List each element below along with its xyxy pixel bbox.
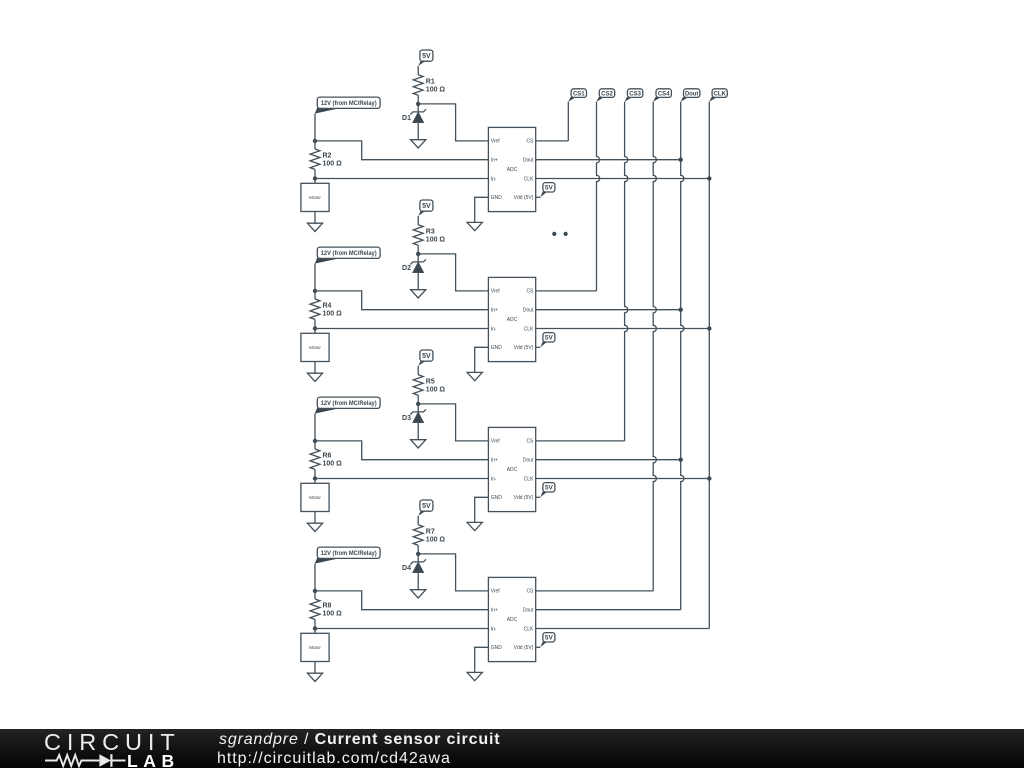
svg-text:Vdd (5V): Vdd (5V) <box>514 645 534 651</box>
wire R7 to node <box>417 545 419 554</box>
power flag 5V (R1 top) <box>418 50 433 66</box>
svg-text:D4: D4 <box>402 565 411 572</box>
svg-text:Motor: Motor <box>309 495 321 500</box>
ground (Motor) <box>307 523 322 531</box>
wire Dout (U4) to Dout bus <box>536 609 681 611</box>
wire CS (U2) to CS2 bus <box>536 290 597 292</box>
wire node to D2 <box>417 254 419 262</box>
wire Vdd stub (U4) <box>536 646 541 648</box>
wire CS (U4) to CS4 bus <box>536 590 654 592</box>
svg-text:Vref: Vref <box>491 139 501 145</box>
svg-text:12V (from MC/Relay): 12V (from MC/Relay) <box>321 250 377 257</box>
svg-text:CLK: CLK <box>524 476 534 482</box>
svg-text:GND: GND <box>491 195 503 201</box>
wire R5 to node <box>417 395 419 404</box>
diode D1 (zener) <box>402 109 426 122</box>
node R8/Motor/In- junction <box>313 626 317 630</box>
motor (block 2) <box>301 333 329 361</box>
ground (U3) <box>467 522 482 530</box>
junction Dout bus / U2 <box>679 308 683 312</box>
svg-text:Motor: Motor <box>309 645 321 650</box>
wire CS2 bus <box>597 102 600 291</box>
power flag 5V (U4 Vdd) <box>540 633 555 648</box>
net flag CS2 <box>596 89 614 102</box>
svg-text:In+: In+ <box>491 458 498 464</box>
svg-text:ADC: ADC <box>507 167 518 173</box>
svg-text:5V: 5V <box>422 503 431 510</box>
junction Dout bus / U1 <box>679 158 683 162</box>
wire D2 to ground <box>417 273 419 290</box>
ground (U4) <box>467 672 482 680</box>
wire node to Motor <box>314 629 316 634</box>
svg-text:D1: D1 <box>402 115 411 122</box>
wire CS1 bus <box>567 102 569 141</box>
junction CLK bus / U2 <box>707 326 711 330</box>
svg-text:CS1: CS1 <box>573 91 585 98</box>
wire node to In+ (U3) <box>315 441 488 460</box>
wire R8 to node <box>314 619 316 628</box>
wire R4 to node <box>314 319 316 328</box>
wire CS4 bus <box>653 102 656 591</box>
ellipsis (repetition dots) <box>552 232 568 236</box>
footer bar <box>0 729 1024 768</box>
svg-text:100 Ω: 100 Ω <box>323 461 343 468</box>
wire node to In- (U4) <box>315 628 488 630</box>
svg-text:In-: In- <box>491 326 497 332</box>
svg-text:ADC: ADC <box>507 467 518 473</box>
svg-text:R2: R2 <box>323 153 332 160</box>
wire 12V flag to node <box>314 264 316 291</box>
wire node to R8 <box>314 591 316 599</box>
svg-text:GND: GND <box>491 645 503 651</box>
svg-text:5V: 5V <box>545 485 554 492</box>
wire node to Motor <box>314 179 316 184</box>
node R4/Motor/In- junction <box>313 326 317 330</box>
resistor R4 <box>310 299 342 319</box>
net flag 12V (from MC/Relay) <box>315 547 380 564</box>
node 12V/R6/In+ junction <box>313 439 317 443</box>
resistor R7 <box>413 525 445 545</box>
wire GND (U3) to ground <box>475 497 489 522</box>
ADC U3 <box>488 427 535 511</box>
svg-text:R8: R8 <box>323 603 332 610</box>
footer title <box>219 732 500 748</box>
svg-text:5V: 5V <box>422 203 431 210</box>
wire R6 to node <box>314 469 316 478</box>
node 12V/R4/In+ junction <box>313 289 317 293</box>
wire 5V flag to R5 <box>417 366 419 375</box>
svg-text:In+: In+ <box>491 608 498 614</box>
svg-text:5V: 5V <box>545 635 554 642</box>
ground (U2) <box>467 372 482 380</box>
node R7/D4 junction <box>416 552 420 556</box>
svg-text:5V: 5V <box>422 53 431 60</box>
resistor R2 <box>310 149 342 169</box>
svg-text:In-: In- <box>491 176 497 182</box>
svg-text:GND: GND <box>491 345 503 351</box>
svg-text:In-: In- <box>491 476 497 482</box>
svg-text:D3: D3 <box>402 415 411 422</box>
wire node to In+ (U1) <box>315 141 488 160</box>
wire node to D3 <box>417 404 419 412</box>
svg-text:Dout: Dout <box>523 158 534 164</box>
wire Motor to ground <box>314 512 316 524</box>
wire GND (U2) to ground <box>475 347 489 372</box>
power flag 5V (U2 Vdd) <box>540 333 555 348</box>
svg-text:CS: CS <box>526 139 534 145</box>
resistor R3 <box>413 225 445 245</box>
svg-text:CLK: CLK <box>714 91 727 98</box>
wire R1 to node <box>417 95 419 104</box>
wire Dout (U1) to Dout bus <box>536 159 681 161</box>
junction Dout bus / U3 <box>679 458 683 462</box>
wire CS3 bus <box>625 102 628 441</box>
svg-text:Vref: Vref <box>491 439 501 445</box>
svg-text:12V (from MC/Relay): 12V (from MC/Relay) <box>321 400 377 407</box>
svg-text:Vdd (5V): Vdd (5V) <box>514 345 534 351</box>
net flag CS1 <box>568 89 586 102</box>
svg-text:R7: R7 <box>426 528 435 535</box>
wire Motor to ground <box>314 212 316 224</box>
wire Motor to ground <box>314 662 316 674</box>
power flag 5V (R7 top) <box>418 500 433 516</box>
resistor R6 <box>310 449 342 469</box>
ground (U1) <box>467 222 482 230</box>
wire node to Vref (U1) <box>418 104 488 141</box>
svg-text:Dout: Dout <box>523 308 534 314</box>
wire node to Vref (U2) <box>418 254 488 291</box>
ADC U2 <box>488 277 535 361</box>
svg-text:In+: In+ <box>491 158 498 164</box>
svg-text:5V: 5V <box>545 185 554 192</box>
ground (D3) <box>411 440 426 448</box>
svg-text:5V: 5V <box>422 353 431 360</box>
ADC U4 <box>488 577 535 661</box>
ground (D4) <box>411 590 426 598</box>
ground (D1) <box>411 140 426 148</box>
wire D1 to ground <box>417 123 419 140</box>
net flag 12V (from MC/Relay) <box>315 97 380 114</box>
node R6/Motor/In- junction <box>313 476 317 480</box>
svg-text:CS3: CS3 <box>629 91 641 98</box>
svg-text:12V (from MC/Relay): 12V (from MC/Relay) <box>321 100 377 107</box>
wire node to Vref (U4) <box>418 554 488 591</box>
wire Vdd stub (U2) <box>536 346 541 348</box>
wire 12V flag to node <box>314 564 316 591</box>
footer url <box>217 751 451 767</box>
svg-text:CLK: CLK <box>524 626 534 632</box>
svg-text:100 Ω: 100 Ω <box>426 536 446 543</box>
wire node to Vref (U3) <box>418 404 488 441</box>
net flag CLK <box>709 89 727 102</box>
svg-text:Vref: Vref <box>491 589 501 595</box>
wire R3 to node <box>417 245 419 254</box>
net flag 12V (from MC/Relay) <box>315 247 380 264</box>
svg-text:100 Ω: 100 Ω <box>426 386 446 393</box>
resistor R8 <box>310 599 342 619</box>
svg-text:CS4: CS4 <box>658 91 670 98</box>
wire 12V flag to node <box>314 414 316 441</box>
wire Dout (U3) to Dout bus <box>536 459 681 461</box>
wire R2 to node <box>314 169 316 178</box>
wire node to In- (U2) <box>315 328 488 330</box>
wire CLK (U3) to CLK bus <box>536 478 710 480</box>
ground (Motor) <box>307 223 322 231</box>
ground (Motor) <box>307 373 322 381</box>
wire node to R2 <box>314 141 316 149</box>
wire node to R4 <box>314 291 316 299</box>
wire Motor to ground <box>314 362 316 374</box>
svg-text:ADC: ADC <box>507 617 518 623</box>
power flag 5V (U1 Vdd) <box>540 183 555 198</box>
node 12V/R2/In+ junction <box>313 139 317 143</box>
wire CLK bus <box>708 102 710 629</box>
power flag 5V (R5 top) <box>418 350 433 366</box>
ADC U1 <box>488 127 535 211</box>
svg-text:R3: R3 <box>426 228 435 235</box>
node 12V/R8/In+ junction <box>313 589 317 593</box>
node R1/D1 junction <box>416 102 420 106</box>
svg-text:D2: D2 <box>402 265 411 272</box>
svg-text:5V: 5V <box>545 335 554 342</box>
svg-text:CLK: CLK <box>524 326 534 332</box>
svg-text:Vref: Vref <box>491 289 501 295</box>
wire Dout (U2) to Dout bus <box>536 309 681 311</box>
wire D3 to ground <box>417 423 419 440</box>
svg-text:Dout: Dout <box>523 608 534 614</box>
svg-text:In-: In- <box>491 626 497 632</box>
svg-text:R5: R5 <box>426 378 435 385</box>
svg-text:Motor: Motor <box>309 345 321 350</box>
wire Dout bus <box>681 102 684 610</box>
diode D3 (zener) <box>402 409 426 422</box>
svg-text:100 Ω: 100 Ω <box>426 236 446 243</box>
svg-text:Dout: Dout <box>685 91 699 98</box>
resistor R1 <box>413 75 445 95</box>
node R2/Motor/In- junction <box>313 176 317 180</box>
junction CLK bus / U3 <box>707 476 711 480</box>
wire node to In+ (U2) <box>315 291 488 310</box>
svg-text:Vdd (5V): Vdd (5V) <box>514 195 534 201</box>
wire 12V flag to node <box>314 114 316 141</box>
diode D2 (zener) <box>402 259 426 272</box>
svg-text:100 Ω: 100 Ω <box>426 86 446 93</box>
svg-text:CS: CS <box>526 589 534 595</box>
wire CLK (U1) to CLK bus <box>536 178 710 180</box>
resistor R5 <box>413 375 445 395</box>
motor (block 4) <box>301 633 329 661</box>
svg-text:Vdd (5V): Vdd (5V) <box>514 495 534 501</box>
wire node to Motor <box>314 479 316 484</box>
wire 5V flag to R1 <box>417 66 419 75</box>
net flag CS4 <box>653 89 671 102</box>
wire Vdd stub (U1) <box>536 196 541 198</box>
wire CS (U3) to CS3 bus <box>536 440 625 442</box>
wire Vdd stub (U3) <box>536 496 541 498</box>
svg-text:In+: In+ <box>491 308 498 314</box>
svg-text:100 Ω: 100 Ω <box>323 611 343 618</box>
wire node to In- (U3) <box>315 478 488 480</box>
svg-text:R4: R4 <box>323 303 332 310</box>
svg-text:CS: CS <box>526 289 534 295</box>
ground (D2) <box>411 290 426 298</box>
wire GND (U4) to ground <box>475 647 489 672</box>
wire D4 to ground <box>417 573 419 590</box>
svg-text:R1: R1 <box>426 78 435 85</box>
motor (block 3) <box>301 483 329 511</box>
svg-text:Dout: Dout <box>523 458 534 464</box>
wire node to In+ (U4) <box>315 591 488 610</box>
wire CS (U1) to CS1 bus <box>536 140 569 142</box>
svg-text:12V (from MC/Relay): 12V (from MC/Relay) <box>321 550 377 557</box>
svg-text:CS2: CS2 <box>601 91 613 98</box>
ground (Motor) <box>307 673 322 681</box>
wire 5V flag to R7 <box>417 516 419 525</box>
wire GND (U1) to ground <box>475 197 489 222</box>
node R5/D3 junction <box>416 402 420 406</box>
net flag CS3 <box>625 89 643 102</box>
svg-text:100 Ω: 100 Ω <box>323 161 343 168</box>
wire CLK (U2) to CLK bus <box>536 328 710 330</box>
CircuitLab logo: CIRCUIT <box>44 729 181 756</box>
power flag 5V (U3 Vdd) <box>540 483 555 498</box>
power flag 5V (R3 top) <box>418 200 433 216</box>
svg-text:CLK: CLK <box>524 176 534 182</box>
svg-text:ADC: ADC <box>507 317 518 323</box>
CircuitLab logo: LAB <box>127 751 180 772</box>
diode D4 (zener) <box>402 559 426 572</box>
net flag 12V (from MC/Relay) <box>315 397 380 414</box>
junction CLK bus / U1 <box>707 176 711 180</box>
wire node to D4 <box>417 554 419 562</box>
wire node to In- (U1) <box>315 178 488 180</box>
svg-text:CS: CS <box>526 439 534 445</box>
CircuitLab logo icon (resistor + diode) <box>44 751 130 769</box>
wire node to R6 <box>314 441 316 449</box>
wire node to Motor <box>314 329 316 334</box>
node R3/D2 junction <box>416 252 420 256</box>
svg-text:Motor: Motor <box>309 195 321 200</box>
svg-text:GND: GND <box>491 495 503 501</box>
svg-text:R6: R6 <box>323 453 332 460</box>
wire 5V flag to R3 <box>417 216 419 225</box>
wire CLK (U4) to CLK bus <box>536 628 710 630</box>
motor (block 1) <box>301 183 329 211</box>
net flag Dout <box>681 89 700 102</box>
svg-text:100 Ω: 100 Ω <box>323 311 343 318</box>
wire node to D1 <box>417 104 419 112</box>
